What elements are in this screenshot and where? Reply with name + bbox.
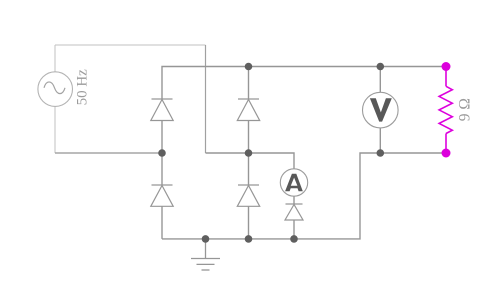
voltmeter V1	[363, 92, 399, 128]
wire	[248, 121, 250, 186]
terminal post bottom	[442, 149, 451, 158]
diode D1	[151, 99, 173, 121]
resistor R1 9 ohm	[439, 67, 452, 154]
wire bottom rail	[162, 153, 446, 239]
wire	[248, 206, 250, 239]
node junction	[377, 149, 385, 157]
ammeter A1	[280, 169, 307, 196]
node junction	[377, 63, 385, 71]
svg-text:9 Ω: 9 Ω	[456, 98, 473, 121]
wire	[54, 107, 56, 154]
diode D3	[237, 99, 259, 121]
wire	[293, 220, 295, 239]
terminal post top	[442, 62, 451, 71]
diode D5	[285, 204, 303, 220]
diode D2	[151, 185, 173, 206]
wire	[161, 206, 163, 239]
wire	[248, 67, 250, 100]
node junction	[158, 149, 166, 157]
diode D4	[237, 185, 259, 206]
node junction	[290, 235, 298, 243]
wire	[55, 152, 162, 154]
node junction	[245, 149, 253, 157]
wire	[249, 153, 295, 169]
svg-text:50 Hz: 50 Hz	[74, 69, 90, 106]
wire	[161, 121, 163, 186]
wire	[54, 45, 56, 72]
wire	[379, 67, 381, 93]
wire	[379, 128, 381, 153]
node junction	[245, 63, 253, 71]
wire	[205, 45, 207, 153]
wire top rail	[162, 67, 446, 100]
wire	[206, 152, 249, 154]
node junction	[245, 235, 253, 243]
wire	[293, 197, 295, 205]
ground	[191, 239, 220, 270]
node junction	[202, 235, 210, 243]
AC source V1 50 Hz	[38, 72, 73, 107]
wire	[55, 44, 206, 46]
